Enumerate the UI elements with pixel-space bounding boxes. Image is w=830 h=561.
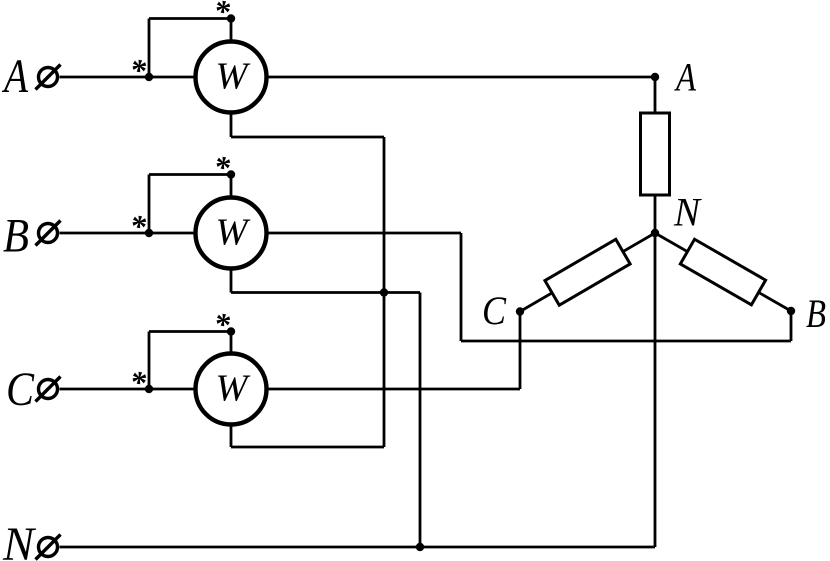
polarity mark W2 current coil (130, 208, 147, 244)
terminal label C (6, 363, 35, 416)
label node N (673, 190, 702, 235)
wire node N to node B (655, 233, 791, 311)
node A (load) (651, 73, 659, 81)
wire phase A to wattmeter W1 (60, 76, 196, 79)
svg-text:B: B (806, 291, 826, 336)
terminal label B (3, 210, 29, 263)
polarity mark W1 voltage coil (214, 0, 231, 29)
svg-text:A: A (674, 55, 697, 100)
wire W3 output to load node C (267, 312, 521, 390)
polarity mark W2 voltage coil (214, 149, 231, 185)
terminal A (36, 65, 61, 90)
wire W2 output to load node B (267, 233, 792, 341)
node W3 voltage terminal (227, 327, 235, 335)
node W2 voltage terminal (227, 170, 235, 178)
wire neutral (60, 546, 656, 549)
wattmeter W1 (196, 42, 267, 113)
terminal label A (2, 50, 29, 103)
node junction on phase C (W3 voltage tap) (145, 385, 153, 393)
node W1 voltage terminal (227, 14, 235, 22)
wire phase C to wattmeter W3 (60, 388, 196, 391)
svg-text:N: N (2, 518, 37, 561)
svg-text:*: * (130, 364, 147, 400)
svg-text:C: C (6, 363, 35, 416)
wire star point to neutral (654, 233, 657, 547)
wire W1 voltage tap (149, 19, 231, 78)
svg-text:*: * (214, 306, 231, 342)
resistor phase C load (545, 239, 630, 305)
svg-text:*: * (214, 0, 231, 29)
terminal N (36, 535, 61, 560)
node junction on phase A (W1 voltage tap) (145, 73, 153, 81)
label node C (482, 288, 507, 333)
polarity mark W1 current coil (130, 52, 147, 88)
label node A (674, 55, 697, 100)
terminal C (36, 377, 61, 402)
wire W1 voltage coil return (231, 113, 384, 448)
svg-text:C: C (482, 288, 507, 333)
node junction on phase B (W2 voltage tap) (145, 229, 153, 237)
wire W3 voltage tap (149, 332, 231, 390)
node voltage-return junction (380, 288, 388, 296)
svg-text:*: * (130, 208, 147, 244)
node N (load star point) (651, 229, 659, 237)
svg-text:N: N (673, 190, 702, 235)
wire W2 voltage coil return (231, 269, 420, 548)
wire W1 output to node A (267, 76, 656, 79)
wattmeter W3 (196, 354, 267, 425)
svg-text:W: W (216, 368, 251, 410)
node C (load) (516, 307, 524, 315)
svg-text:*: * (130, 52, 147, 88)
svg-text:*: * (214, 149, 231, 185)
wire load node A to node N (654, 77, 657, 233)
wire node N to node C (520, 233, 655, 312)
svg-text:W: W (216, 212, 251, 254)
wattmeter W2 (196, 198, 267, 269)
polarity mark W3 voltage coil (214, 306, 231, 342)
label node B (806, 291, 826, 336)
svg-text:A: A (2, 50, 29, 103)
node neutral junction (416, 543, 424, 551)
terminal label N (2, 518, 37, 561)
svg-text:B: B (3, 210, 29, 263)
wire W3 voltage coil return (231, 425, 384, 448)
node B (load) (787, 307, 795, 315)
polarity mark W3 current coil (130, 364, 147, 400)
resistor phase B load (680, 239, 765, 305)
terminal B (36, 221, 61, 246)
svg-text:W: W (216, 56, 251, 98)
resistor phase A load (641, 113, 670, 195)
wire phase B to wattmeter W2 (60, 232, 196, 235)
wire W2 voltage tap (149, 175, 231, 234)
